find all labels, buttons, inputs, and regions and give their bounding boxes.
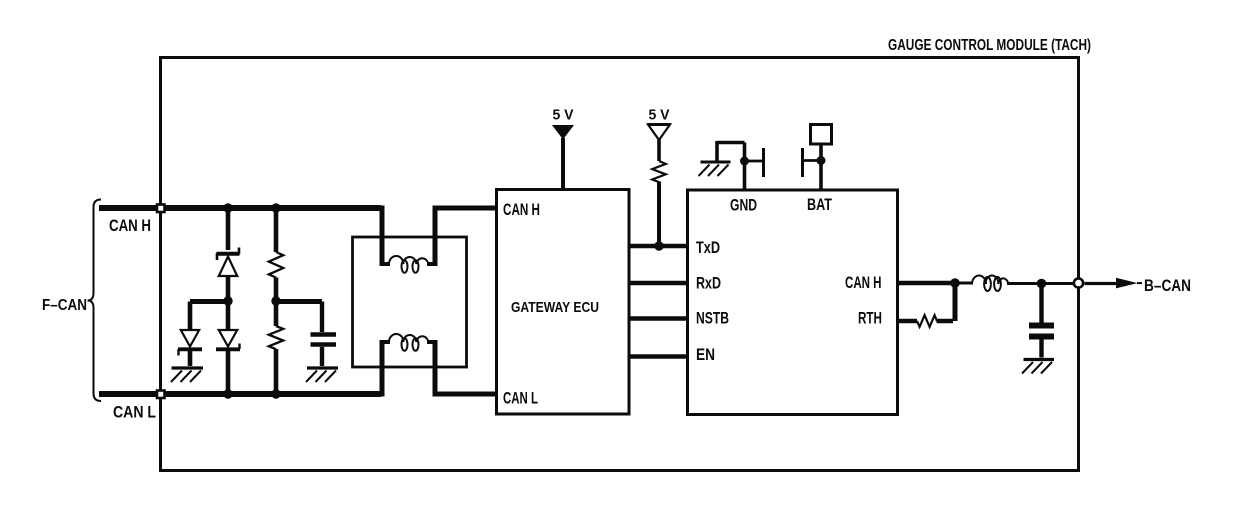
svg-text:EN: EN (696, 346, 715, 364)
svg-text:TxD: TxD (696, 239, 720, 257)
svg-text:5 V: 5 V (649, 107, 670, 124)
svg-text:GND: GND (730, 197, 757, 215)
svg-text:CAN H: CAN H (845, 274, 882, 292)
svg-text:CAN L: CAN L (503, 390, 538, 408)
svg-text:B–CAN: B–CAN (1144, 277, 1191, 295)
svg-text:GATEWAY ECU: GATEWAY ECU (511, 299, 599, 316)
svg-text:F–CAN: F–CAN (42, 297, 87, 314)
svg-text:BAT: BAT (807, 196, 832, 214)
svg-text:CAN H: CAN H (503, 201, 540, 219)
svg-text:5 V: 5 V (553, 107, 574, 124)
svg-text:GAUGE CONTROL MODULE (TACH): GAUGE CONTROL MODULE (TACH) (888, 37, 1091, 54)
svg-text:CAN L: CAN L (113, 403, 156, 422)
svg-text:RxD: RxD (696, 275, 721, 293)
svg-text:NSTB: NSTB (696, 310, 729, 328)
svg-text:RTH: RTH (858, 310, 882, 328)
svg-text:CAN H: CAN H (109, 216, 151, 235)
